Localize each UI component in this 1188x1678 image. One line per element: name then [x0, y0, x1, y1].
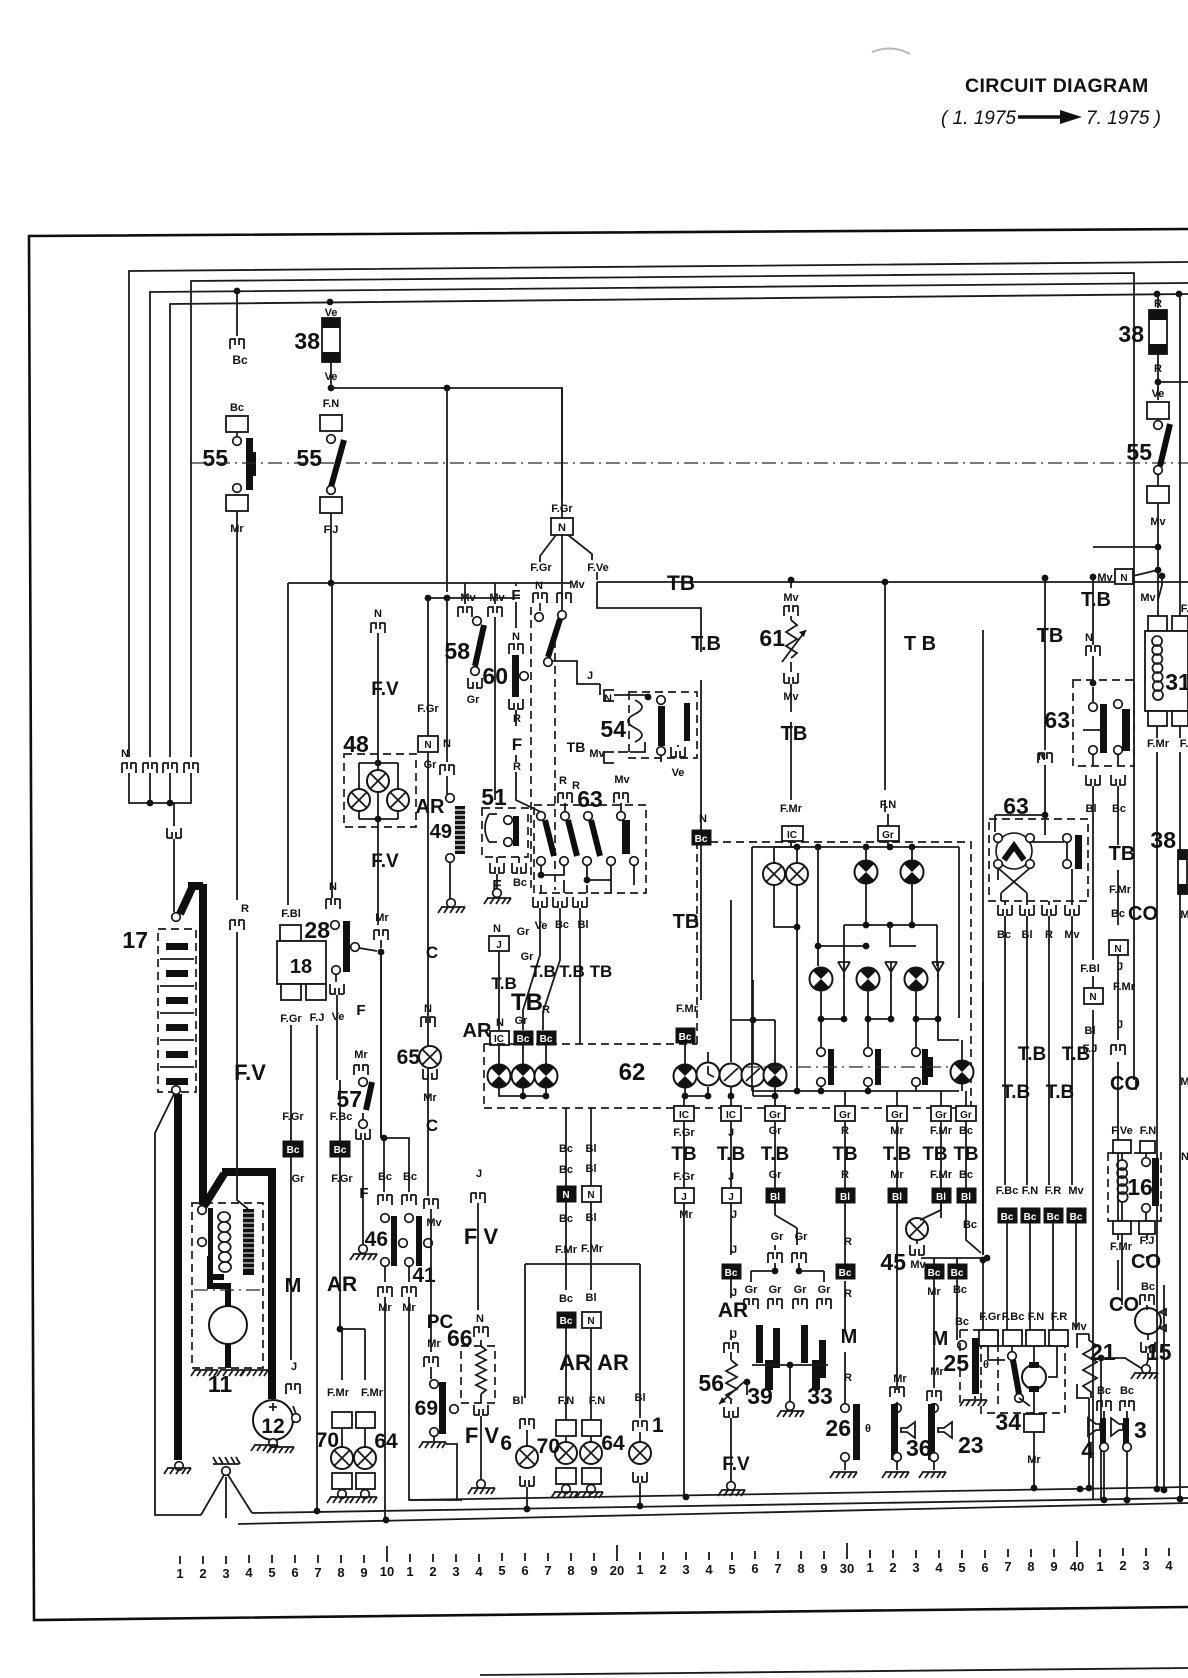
connector fork	[326, 899, 340, 909]
four wires down	[1005, 916, 1072, 1185]
svg-text:2: 2	[429, 1564, 436, 1579]
fork up	[784, 673, 798, 683]
63 terminals	[994, 834, 1003, 843]
starter 11 terminal circles	[198, 1206, 207, 1215]
svg-text:F.Mr: F.Mr	[1109, 884, 1132, 896]
rheostat 56 arrow	[719, 1381, 745, 1404]
svg-text:N: N	[1114, 944, 1121, 955]
svg-text:TB: TB	[1037, 625, 1064, 647]
wire down from 48	[377, 819, 379, 925]
svg-text:7: 7	[544, 1563, 551, 1578]
svg-text:Mv: Mv	[783, 592, 799, 604]
svg-text:Mv: Mv	[460, 592, 476, 604]
node bus B	[524, 1506, 531, 1513]
svg-text:IC: IC	[726, 1110, 736, 1121]
relay 54 wire in	[614, 695, 648, 700]
faint pencil mark top	[872, 48, 910, 54]
wire PC down	[430, 1209, 432, 1352]
ignition lower contact	[544, 658, 553, 667]
svg-text:F.Mr: F.Mr	[327, 1387, 350, 1399]
switch 57 top circle	[359, 1078, 368, 1087]
wire down from bracket	[173, 803, 175, 826]
fork	[724, 1343, 738, 1353]
rheostat 61 arrow	[782, 630, 806, 662]
wire TB to lower 63	[1044, 578, 1046, 815]
31 box	[1145, 631, 1188, 711]
wires from gauges up	[731, 900, 775, 1063]
wire branch down	[446, 388, 448, 592]
svg-text:F.Mr: F.Mr	[361, 1387, 384, 1399]
node top of 48	[375, 760, 382, 767]
svg-text:28: 28	[304, 917, 330, 943]
svg-text:F.V: F.V	[371, 851, 399, 872]
16 top terminals	[1113, 1140, 1131, 1153]
box N	[582, 1312, 601, 1328]
fork 46	[378, 1195, 392, 1205]
ground	[830, 1472, 857, 1478]
fork	[890, 1387, 904, 1397]
ground	[438, 907, 465, 913]
svg-text:6: 6	[751, 1561, 758, 1576]
switch 28 bar	[343, 921, 350, 972]
warning lamps row2	[810, 968, 833, 991]
svg-text:Mv: Mv	[614, 774, 630, 786]
connector fork	[374, 930, 388, 940]
svg-text:C: C	[426, 1116, 438, 1135]
rheostat 56	[726, 1360, 737, 1404]
svg-text:63: 63	[577, 786, 603, 812]
svg-text:2: 2	[199, 1566, 206, 1581]
svg-text:6: 6	[521, 1563, 528, 1578]
node	[520, 1093, 527, 1100]
svg-text:R: R	[844, 1236, 852, 1248]
wire to ground	[480, 1416, 482, 1480]
svg-text:34: 34	[995, 1409, 1021, 1435]
relay 54 dashed box	[629, 692, 697, 758]
svg-text:Mv: Mv	[1140, 592, 1156, 604]
svg-text:CO: CO	[1109, 1294, 1139, 1316]
svg-text:9: 9	[590, 1563, 597, 1578]
steering lock dashed box	[531, 607, 555, 890]
wire Bc down	[1117, 786, 1119, 1290]
svg-text:5: 5	[498, 1563, 505, 1578]
wire	[887, 814, 889, 847]
svg-text:F V: F V	[464, 1224, 499, 1249]
svg-text:26: 26	[825, 1415, 851, 1441]
wire ignition to relay 54	[551, 661, 600, 684]
battery 12 ground	[269, 1439, 278, 1448]
svg-text:Gr: Gr	[515, 1015, 529, 1027]
ground	[786, 1402, 795, 1411]
svg-text:CO: CO	[1128, 903, 1158, 925]
wire down	[339, 1080, 341, 1329]
connector fork	[371, 623, 385, 633]
contact circle	[327, 486, 336, 495]
svg-text:F.Mr: F.Mr	[1113, 981, 1136, 993]
long vertical right-center	[982, 630, 984, 1255]
svg-text:Mv: Mv	[569, 579, 585, 591]
svg-text:R: R	[513, 713, 521, 725]
switch 41 mid contact	[424, 1239, 433, 1248]
node bus C	[383, 1517, 390, 1524]
svg-text:51: 51	[481, 784, 507, 810]
wires from 63 forks down	[499, 908, 580, 1044]
svg-text:66: 66	[447, 1325, 473, 1351]
nodes on inner frame	[815, 844, 822, 851]
starter 11 pull-in coil (open spring)	[218, 1212, 231, 1272]
wire Ve down	[336, 995, 338, 1080]
svg-text:J: J	[1117, 961, 1123, 973]
svg-text:θ: θ	[865, 1423, 871, 1435]
svg-text:41: 41	[412, 1264, 436, 1287]
starter 11 solenoid contact bar	[208, 1208, 213, 1256]
svg-text:9: 9	[820, 1561, 827, 1576]
clock 15	[1135, 1308, 1161, 1334]
node feed 46/41	[381, 1135, 388, 1142]
svg-text:N: N	[587, 1190, 594, 1201]
svg-text:1: 1	[176, 1566, 183, 1581]
inline N box on TB bus	[1115, 569, 1133, 584]
lamp cluster 48 dashed box	[344, 754, 416, 827]
contact circle	[1154, 466, 1163, 475]
svg-text:F.Mr: F.Mr	[780, 803, 803, 815]
forks	[744, 1299, 758, 1309]
svg-text:2: 2	[1119, 1558, 1126, 1573]
svg-text:N: N	[424, 1003, 432, 1015]
cross link	[752, 1365, 828, 1402]
cluster 48 internal wires	[359, 763, 398, 819]
node lamp bracket	[337, 1326, 344, 1333]
wiper switch 39 33: Gr branch	[775, 1203, 797, 1245]
svg-text:Gr: Gr	[795, 1231, 809, 1243]
wire TB right column	[884, 582, 886, 812]
fork	[509, 644, 523, 654]
column F.Mr 45	[917, 1203, 941, 1244]
resistor 49 striped bar	[455, 806, 465, 854]
63 distributor circle	[996, 833, 1032, 869]
thin wire from 17 bottom to chassis	[155, 1094, 201, 1515]
connector fork	[354, 1065, 368, 1075]
wire	[790, 582, 792, 672]
right lamp in cluster	[951, 1061, 974, 1084]
node fuse output	[328, 385, 335, 392]
wire down	[730, 1203, 732, 1360]
wire 46 down to bus C	[384, 1266, 386, 1518]
starter 11 series winding (dense coil)	[243, 1209, 254, 1275]
31 terminals top	[1148, 616, 1167, 631]
connector row under cluster: box IC	[674, 1106, 694, 1121]
chassis ground tent	[201, 1475, 252, 1518]
fork under 65	[423, 1069, 437, 1079]
svg-text:Mv: Mv	[426, 1217, 442, 1229]
flasher 18 body	[277, 941, 326, 984]
tent apex circle	[222, 1467, 231, 1476]
box Bc black	[557, 1312, 576, 1328]
wiper 34 motor	[1022, 1365, 1046, 1389]
node bottom of 48	[375, 816, 382, 823]
svg-text:55: 55	[1126, 439, 1152, 465]
svg-text:R: R	[241, 903, 249, 915]
svg-text:Gr: Gr	[517, 926, 531, 938]
wire down to lamp cluster 48	[377, 633, 379, 763]
C column: wire down from Q line	[427, 598, 429, 1196]
fork	[421, 1017, 435, 1027]
svg-text:10: 10	[380, 1564, 394, 1579]
box J	[722, 1188, 741, 1203]
instrument cluster 62 dashed box	[484, 842, 971, 1108]
black box Bc	[676, 1028, 695, 1043]
box Gr	[765, 1106, 785, 1121]
wire line Q	[428, 597, 520, 599]
TB bus right nodes	[1042, 575, 1049, 582]
bottom bus B	[252, 1498, 1188, 1513]
svg-text:1: 1	[1096, 1559, 1103, 1574]
fork	[471, 1193, 485, 1203]
svg-text:8: 8	[337, 1565, 344, 1580]
66 resistor coil	[476, 1346, 486, 1403]
svg-text:T.B: T.B	[530, 962, 556, 981]
63 upper dashed box	[1073, 680, 1134, 766]
ground	[1142, 1365, 1151, 1374]
stub wires	[465, 583, 495, 604]
svg-text:Mv: Mv	[910, 1259, 926, 1271]
svg-text:Gr: Gr	[839, 1110, 851, 1121]
connector box	[1147, 402, 1169, 419]
svg-text:Bc: Bc	[230, 402, 244, 414]
svg-text:Bl: Bl	[586, 1292, 597, 1304]
svg-text:J: J	[731, 1329, 737, 1341]
forks under upper 63	[1086, 775, 1100, 785]
label Mr handled in left; wire continues from node 952 down	[380, 956, 382, 1138]
node bus4 right fuse	[1154, 291, 1161, 298]
svg-text:F.R: F.R	[1045, 1185, 1062, 1197]
lamps	[566, 1436, 591, 1442]
svg-text:TB: TB	[673, 911, 700, 933]
fuse 38 right	[1178, 850, 1188, 894]
svg-text:Gr: Gr	[882, 830, 894, 841]
svg-text:Mr: Mr	[423, 1092, 437, 1104]
ruler scale ticks 1-44	[179, 1556, 181, 1564]
circle 69 top	[430, 1380, 439, 1389]
fork under	[520, 1476, 534, 1486]
svg-text:F: F	[356, 1002, 365, 1019]
svg-text:Bc: Bc	[287, 1145, 300, 1156]
wire across	[1101, 1358, 1144, 1370]
wire down to flasher 18	[287, 583, 289, 905]
headlight switch 63 dashed box	[534, 805, 646, 893]
svg-text:IC: IC	[679, 1110, 689, 1121]
forks under 63	[998, 905, 1012, 915]
relay 54 coil	[628, 700, 642, 742]
svg-text:F V: F V	[465, 1423, 500, 1448]
wiper 34 terminals	[979, 1330, 998, 1346]
lamp 48 center	[367, 770, 389, 792]
svg-text:N: N	[1181, 1151, 1188, 1163]
black box Bd	[330, 1141, 350, 1157]
svg-text:N: N	[558, 522, 566, 534]
wire F.J down	[330, 513, 332, 583]
lamp 64	[364, 1428, 366, 1447]
34 output square	[1024, 1414, 1044, 1432]
svg-text:Bc: Bc	[1001, 1212, 1014, 1223]
node bus3-Bc	[234, 288, 241, 295]
svg-text:Bc: Bc	[334, 1145, 347, 1156]
wire to lamp	[685, 1043, 775, 1096]
svg-text:Bc: Bc	[513, 877, 527, 889]
ignition switch contacts	[535, 613, 544, 622]
svg-text:23: 23	[958, 1432, 984, 1458]
starter 11 ground rail	[191, 1370, 218, 1376]
svg-text:4: 4	[935, 1560, 943, 1575]
svg-text:TB: TB	[590, 962, 613, 981]
svg-text:69: 69	[415, 1397, 438, 1420]
fork horizontal to 54	[600, 684, 614, 701]
svg-text:58: 58	[444, 638, 470, 664]
svg-text:Bc: Bc	[555, 919, 569, 931]
starter 11 motor circle	[209, 1306, 247, 1344]
svg-text:J: J	[587, 670, 593, 682]
rheostat 61 zigzag	[786, 620, 797, 658]
wire TB dot to 31 left area	[1158, 576, 1162, 600]
wire down	[380, 952, 382, 1138]
switch 26	[841, 1404, 850, 1413]
contact circle	[331, 921, 340, 930]
svg-text:8: 8	[1027, 1559, 1034, 1574]
svg-text:Ve: Ve	[1152, 388, 1165, 400]
svg-text:31: 31	[1165, 669, 1188, 695]
battery 12 plus sign	[269, 1403, 277, 1411]
Mv feed line right	[921, 1257, 987, 1259]
svg-text:J: J	[496, 940, 502, 951]
connector fork	[230, 339, 244, 349]
bus line 4	[170, 294, 1188, 757]
svg-text:Bc: Bc	[951, 1268, 964, 1279]
svg-text:46: 46	[365, 1228, 388, 1251]
lamp 6	[516, 1446, 538, 1468]
bottom wires to connector row	[821, 1086, 916, 1091]
svg-text:55: 55	[296, 445, 322, 471]
connector box	[1147, 486, 1169, 503]
svg-text:TB: TB	[511, 989, 543, 1016]
switch 41 top contact	[405, 1214, 414, 1223]
connector fork	[286, 1384, 300, 1394]
node	[744, 1379, 751, 1386]
node	[980, 1257, 987, 1264]
svg-text:N: N	[587, 1316, 594, 1327]
column R 26: wire	[844, 1203, 846, 1404]
node top of 63	[1042, 812, 1049, 819]
wire to ground	[730, 1418, 732, 1482]
wire down	[790, 684, 792, 800]
wire	[1092, 976, 1094, 988]
contact circle	[1154, 421, 1163, 430]
connector box	[320, 415, 342, 431]
svg-text:Bc: Bc	[232, 353, 248, 367]
node Q left	[425, 595, 432, 602]
box IC	[782, 826, 803, 841]
svg-text:40: 40	[1070, 1559, 1084, 1574]
N splitter: wire from ignition feed	[561, 388, 563, 500]
svg-text:Bl: Bl	[961, 1192, 971, 1203]
svg-text:N: N	[374, 608, 382, 620]
svg-text:Bc: Bc	[560, 1316, 573, 1327]
chain line through contacts	[745, 1066, 962, 1068]
svg-text:F.Bc: F.Bc	[996, 1185, 1019, 1197]
wire from bus4 down to 31 right terminal	[1179, 294, 1181, 616]
switch 36	[893, 1404, 902, 1413]
svg-text:25: 25	[943, 1350, 969, 1376]
svg-text:Gr: Gr	[292, 1173, 306, 1185]
svg-text:T.B: T.B	[1002, 1082, 1031, 1103]
16 bottom terminals	[1113, 1221, 1131, 1234]
svg-text:7. 1975 ): 7. 1975 )	[1086, 108, 1161, 129]
svg-text:Bc: Bc	[839, 1268, 852, 1279]
svg-text:3: 3	[1142, 1558, 1149, 1573]
link to F.V column	[359, 948, 377, 951]
svg-text:38: 38	[294, 328, 320, 354]
lamp 64 top terminal	[356, 1412, 375, 1428]
svg-text:N: N	[512, 631, 520, 643]
svg-text:Bc: Bc	[725, 1268, 738, 1279]
svg-text:F.V: F.V	[234, 1060, 266, 1085]
fork under	[633, 1472, 647, 1482]
lamp 45	[906, 1218, 928, 1240]
component 16 dashed box	[1108, 1153, 1161, 1221]
link ground to bus A	[446, 1444, 457, 1499]
fork Ve	[671, 747, 685, 757]
wire	[236, 432, 238, 436]
fork up under 66	[474, 1405, 488, 1415]
svg-text:Bc: Bc	[1120, 1385, 1134, 1397]
switch 55 right blade	[1160, 424, 1170, 466]
fork	[458, 607, 472, 617]
regulator 21	[1077, 1334, 1089, 1398]
svg-text:Gr: Gr	[467, 694, 481, 706]
node	[1086, 1485, 1093, 1492]
relay 54 bottom link	[630, 742, 661, 762]
subtitle (1.1975 -> 7.1975)	[941, 108, 1161, 129]
svg-text:3: 3	[1134, 1417, 1147, 1443]
node	[815, 943, 822, 950]
svg-text:Bc: Bc	[963, 1219, 977, 1231]
svg-text:Bc: Bc	[1112, 803, 1126, 815]
svg-text:49: 49	[430, 821, 452, 843]
31 terminals bottom	[1148, 711, 1167, 726]
ignition blade	[548, 619, 560, 657]
svg-text:TB: TB	[781, 723, 808, 745]
svg-text:7: 7	[1004, 1559, 1011, 1574]
circle top 49	[446, 794, 455, 803]
fork	[1086, 646, 1100, 656]
svg-text:F.V: F.V	[722, 1454, 750, 1475]
svg-text:Bc: Bc	[378, 1171, 392, 1183]
starter motor 11 dashed box	[192, 1203, 263, 1368]
svg-text:1: 1	[636, 1562, 643, 1577]
svg-text:R: R	[559, 775, 567, 787]
flasher 18 top tab	[280, 925, 301, 941]
svg-text:12: 12	[261, 1415, 284, 1438]
wire	[1122, 1234, 1147, 1305]
svg-text:TB: TB	[667, 572, 695, 595]
fork	[424, 1357, 438, 1367]
wire to fuse box 17	[173, 839, 175, 912]
21 zigzag	[1083, 1334, 1097, 1398]
svg-text:8: 8	[797, 1561, 804, 1576]
contact circle	[233, 484, 242, 493]
wiper 34 dashed box	[981, 1346, 1065, 1413]
svg-text:N: N	[493, 923, 501, 935]
box Bl black	[766, 1188, 785, 1203]
